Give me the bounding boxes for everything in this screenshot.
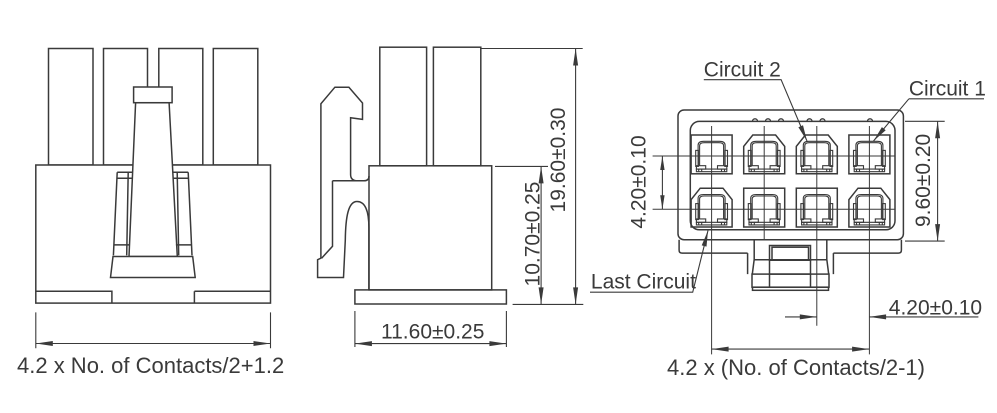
svg-text:4.2 x (No. of Contacts/2-1): 4.2 x (No. of Contacts/2-1) [667,355,925,380]
svg-text:4.2 x No. of Contacts/2+1.2: 4.2 x No. of Contacts/2+1.2 [17,353,284,378]
svg-text:Circuit 1: Circuit 1 [909,78,986,101]
svg-text:11.60±0.25: 11.60±0.25 [381,321,484,344]
svg-text:10.70±0.25: 10.70±0.25 [522,182,545,287]
svg-text:4.20±0.10: 4.20±0.10 [889,296,982,319]
svg-text:Last Circuit: Last Circuit [591,271,696,294]
svg-text:9.60±0.20: 9.60±0.20 [912,134,935,227]
svg-text:4.20±0.10: 4.20±0.10 [628,135,651,228]
svg-text:Circuit 2: Circuit 2 [704,59,781,82]
svg-text:19.60±0.30: 19.60±0.30 [547,108,570,213]
